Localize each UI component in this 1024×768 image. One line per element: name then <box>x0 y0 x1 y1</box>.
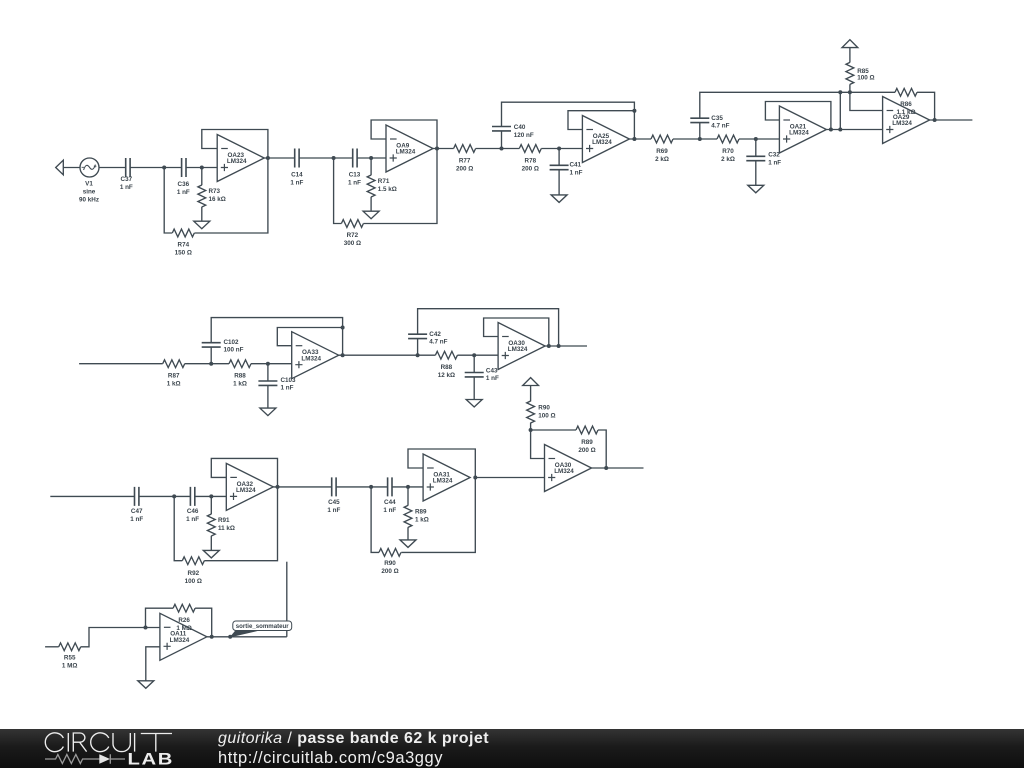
svg-text:90 kHz: 90 kHz <box>79 197 99 204</box>
svg-text:C44: C44 <box>384 499 396 506</box>
svg-text:R89: R89 <box>415 509 427 516</box>
svg-text:LM324: LM324 <box>170 637 190 644</box>
svg-text:C13: C13 <box>349 171 361 178</box>
svg-text:C47: C47 <box>131 508 143 515</box>
svg-text:C41: C41 <box>570 162 582 169</box>
svg-text:C40: C40 <box>514 124 526 131</box>
svg-text:LAB: LAB <box>128 750 174 768</box>
svg-text:1 nF: 1 nF <box>768 160 781 167</box>
svg-text:150 Ω: 150 Ω <box>175 250 192 257</box>
svg-text:1 kΩ: 1 kΩ <box>167 381 181 388</box>
svg-text:R78: R78 <box>525 158 537 165</box>
svg-text:1 nF: 1 nF <box>348 179 361 186</box>
svg-text:4.7 nF: 4.7 nF <box>429 339 447 346</box>
svg-text:R55: R55 <box>64 655 76 662</box>
svg-text:1 nF: 1 nF <box>130 516 143 523</box>
svg-text:C43: C43 <box>486 367 498 374</box>
svg-text:C35: C35 <box>711 115 723 122</box>
svg-text:LM324: LM324 <box>433 478 453 485</box>
svg-text:C45: C45 <box>328 499 340 506</box>
svg-text:C102: C102 <box>224 339 240 346</box>
svg-text:R90: R90 <box>538 405 550 412</box>
svg-text:LM324: LM324 <box>508 346 528 353</box>
svg-text:LM324: LM324 <box>592 139 612 146</box>
svg-text:200 Ω: 200 Ω <box>522 166 539 173</box>
svg-text:R70: R70 <box>722 148 734 155</box>
svg-text:120 nF: 120 nF <box>514 132 534 139</box>
svg-text:1 nF: 1 nF <box>177 189 190 196</box>
svg-text:11 kΩ: 11 kΩ <box>218 525 235 532</box>
svg-text:200 Ω: 200 Ω <box>578 447 595 454</box>
svg-text:LM324: LM324 <box>236 487 256 494</box>
svg-text:1 nF: 1 nF <box>120 184 133 191</box>
svg-text:V1: V1 <box>85 181 93 188</box>
svg-text:4.7 nF: 4.7 nF <box>711 123 729 130</box>
svg-text:2 kΩ: 2 kΩ <box>721 156 735 163</box>
svg-text:R92: R92 <box>188 570 200 577</box>
svg-text:100 nF: 100 nF <box>224 346 244 353</box>
svg-text:R87: R87 <box>168 373 180 380</box>
svg-text:R90: R90 <box>384 560 396 567</box>
svg-text:R89: R89 <box>581 439 593 446</box>
svg-text:LM324: LM324 <box>789 130 809 137</box>
svg-text:C14: C14 <box>291 171 303 178</box>
svg-text:200 Ω: 200 Ω <box>381 568 398 575</box>
svg-text:12 kΩ: 12 kΩ <box>438 372 455 379</box>
svg-text:1.5 kΩ: 1.5 kΩ <box>378 186 397 193</box>
svg-text:2 kΩ: 2 kΩ <box>655 156 669 163</box>
svg-text:LM324: LM324 <box>396 149 416 156</box>
svg-text:sortie_sommateur: sortie_sommateur <box>236 623 289 630</box>
svg-text:R72: R72 <box>347 232 359 239</box>
svg-text:C36: C36 <box>178 181 190 188</box>
svg-text:R91: R91 <box>218 517 230 524</box>
svg-text:R69: R69 <box>656 148 668 155</box>
svg-text:R74: R74 <box>178 242 190 249</box>
svg-text:R88: R88 <box>234 373 246 380</box>
svg-text:C42: C42 <box>429 331 441 338</box>
svg-text:1 nF: 1 nF <box>290 179 303 186</box>
svg-text:C32: C32 <box>768 152 780 159</box>
svg-text:LM324: LM324 <box>892 120 912 127</box>
svg-text:1 nF: 1 nF <box>383 507 396 514</box>
svg-text:R77: R77 <box>459 158 471 165</box>
svg-text:sine: sine <box>83 189 96 196</box>
svg-text:1 nF: 1 nF <box>327 507 340 514</box>
svg-text:1 MΩ: 1 MΩ <box>62 663 78 670</box>
svg-text:C37: C37 <box>121 176 133 183</box>
svg-text:1 nF: 1 nF <box>486 375 499 382</box>
svg-text:R73: R73 <box>209 188 221 195</box>
svg-text:1 nF: 1 nF <box>281 385 294 392</box>
svg-text:C46: C46 <box>187 508 199 515</box>
svg-text:200 Ω: 200 Ω <box>456 166 473 173</box>
svg-text:1 kΩ: 1 kΩ <box>415 517 429 524</box>
svg-text:1 nF: 1 nF <box>570 170 583 177</box>
svg-text:100 Ω: 100 Ω <box>185 578 202 585</box>
svg-text:1 nF: 1 nF <box>186 516 199 523</box>
svg-text:R88: R88 <box>441 364 453 371</box>
svg-text:300 Ω: 300 Ω <box>344 240 361 247</box>
svg-text:100 Ω: 100 Ω <box>857 75 874 82</box>
svg-text:LM324: LM324 <box>227 158 247 165</box>
svg-text:1 kΩ: 1 kΩ <box>233 381 247 388</box>
svg-text:R71: R71 <box>378 178 390 185</box>
svg-text:16 kΩ: 16 kΩ <box>209 196 226 203</box>
svg-text:LM324: LM324 <box>301 355 321 362</box>
svg-text:100 Ω: 100 Ω <box>538 413 555 420</box>
svg-text:LM324: LM324 <box>554 468 574 475</box>
